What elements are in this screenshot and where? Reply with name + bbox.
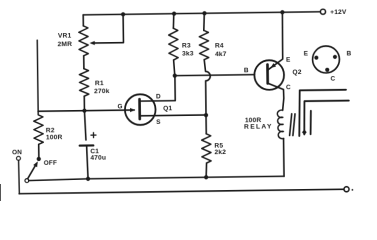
junction R3 drain base node bbox=[173, 74, 177, 78]
capacitor C1 plate bbox=[80, 144, 94, 146]
wire Q1 source to R5 node bbox=[140, 114, 206, 117]
switch common terminal bbox=[25, 179, 29, 183]
switch lever bbox=[27, 166, 35, 179]
wire ON terminal to output line bbox=[18, 160, 21, 193]
svg-text:RELAY: RELAY bbox=[244, 123, 273, 130]
svg-text:S: S bbox=[156, 119, 161, 126]
switch ON terminal bbox=[17, 156, 21, 160]
svg-text:+12V: +12V bbox=[330, 9, 347, 16]
Q1 gate arrow bbox=[130, 108, 135, 112]
wire VR1 to R1 bbox=[83, 56, 85, 69]
wire R5 bottom lead bbox=[205, 163, 208, 177]
resistor R1 bbox=[79, 69, 89, 97]
relay contact NO bbox=[309, 111, 312, 135]
label R2 100R bbox=[46, 127, 63, 141]
case label B bbox=[346, 50, 351, 57]
relay contact common bbox=[299, 90, 347, 136]
svg-text:R1: R1 bbox=[95, 80, 104, 87]
pin label G bbox=[117, 103, 122, 110]
wire VR1 wiper feed bbox=[91, 14, 123, 43]
label R3 3k3 bbox=[182, 42, 194, 57]
pin label C bbox=[286, 84, 291, 91]
junction top rail to VR1 wiper feed bbox=[121, 12, 125, 16]
wire top +12V supply rail bbox=[83, 12, 321, 15]
wire R4 top lead bbox=[203, 13, 206, 30]
junction rail to Q2 emitter bbox=[280, 10, 284, 14]
svg-text:G: G bbox=[117, 103, 122, 110]
wire source node to R5 bbox=[205, 115, 207, 134]
svg-text:C: C bbox=[286, 84, 291, 91]
transistor Q1 body circle bbox=[125, 94, 156, 125]
label 100R RELAY bbox=[244, 117, 273, 131]
wire gate node R2 to Q1 gate bbox=[38, 110, 134, 111]
terminal output bbox=[344, 187, 349, 192]
relay armature diamond bbox=[302, 129, 307, 135]
svg-text:E: E bbox=[304, 50, 309, 57]
Q2 collector line bbox=[268, 83, 284, 110]
svg-text:R4: R4 bbox=[215, 42, 224, 49]
svg-text:R3: R3 bbox=[182, 42, 191, 49]
svg-text:C: C bbox=[331, 76, 336, 83]
label C1 470u bbox=[90, 148, 106, 162]
svg-text:100R: 100R bbox=[46, 134, 63, 141]
label R5 2k2 bbox=[214, 142, 226, 156]
transistor Q2 body circle bbox=[254, 60, 284, 90]
VR1 wiper arrow bbox=[90, 41, 95, 45]
transistor case outline bbox=[312, 46, 339, 73]
wire relay coil to 0V rail bbox=[283, 138, 285, 176]
scan edge artifact left bbox=[0, 184, 2, 201]
resistor R4 bbox=[199, 30, 209, 59]
wire C1 top lead bbox=[84, 111, 85, 140]
svg-text:270k: 270k bbox=[94, 88, 110, 95]
label +12V bbox=[330, 9, 347, 16]
svg-text:2MR: 2MR bbox=[58, 41, 73, 48]
junction R1 C1 gate node bbox=[82, 109, 86, 113]
resistor R3 bbox=[169, 28, 179, 60]
pin label S bbox=[156, 119, 161, 126]
wire VR1 top lead bbox=[82, 15, 84, 26]
svg-text:ON: ON bbox=[12, 149, 22, 156]
pin label E bbox=[286, 57, 291, 64]
wire 0V rail bbox=[29, 176, 284, 180]
case pin E dot bbox=[314, 56, 318, 60]
potentiometer VR1 bbox=[79, 26, 89, 56]
case pin C dot bbox=[325, 68, 329, 72]
label R1 270k bbox=[94, 80, 110, 95]
Q2 base bar bbox=[266, 64, 269, 83]
wire C1 bottom lead bbox=[87, 146, 88, 179]
relay coil RLA bbox=[277, 110, 283, 139]
output terminal mark bbox=[352, 189, 354, 191]
svg-text:E: E bbox=[286, 57, 291, 64]
switch lever arrow bbox=[33, 161, 38, 167]
wire R4 lead with hop over base line bbox=[204, 60, 211, 116]
switch OFF contact dot bbox=[37, 157, 41, 161]
Q1 gate bar bbox=[138, 99, 141, 119]
svg-text:VR1: VR1 bbox=[58, 32, 72, 39]
relay core lines bbox=[289, 114, 295, 136]
label Q2 bbox=[292, 69, 301, 76]
case pin B dot bbox=[333, 55, 337, 59]
svg-text:B: B bbox=[244, 67, 249, 74]
svg-text:3k3: 3k3 bbox=[182, 50, 194, 57]
case label C bbox=[331, 76, 336, 83]
pin label D bbox=[156, 94, 161, 101]
svg-text:470u: 470u bbox=[90, 154, 106, 161]
Q2 emitter arrow bbox=[270, 63, 276, 68]
case label E bbox=[304, 50, 309, 57]
svg-text:Q2: Q2 bbox=[292, 69, 301, 76]
svg-text:D: D bbox=[156, 94, 161, 101]
wire R2 bottom lead bbox=[38, 144, 40, 157]
junction Q1 source R5 bbox=[204, 113, 208, 117]
wire Q2 emitter to rail bbox=[281, 12, 284, 59]
junction rail to R4 bbox=[202, 11, 206, 15]
pin label B bbox=[244, 67, 249, 74]
junction C1 to 0V rail bbox=[86, 177, 90, 181]
label OFF bbox=[44, 160, 57, 167]
wire R3 bottom lead bbox=[174, 60, 175, 76]
wire base node to Q2 base bbox=[175, 75, 255, 76]
wire output line bottom bbox=[19, 189, 344, 193]
svg-text:Q1: Q1 bbox=[163, 105, 172, 112]
label Q1 bbox=[163, 105, 172, 112]
wire R3 top lead bbox=[172, 14, 175, 29]
svg-text:R2: R2 bbox=[46, 127, 55, 134]
svg-text:2k2: 2k2 bbox=[214, 149, 226, 156]
resistor R2 bbox=[33, 40, 44, 144]
junction R5 to 0V rail bbox=[204, 175, 208, 179]
resistor R5 bbox=[202, 134, 212, 163]
label R4 4k7 bbox=[215, 42, 227, 58]
C1 polarity plus sign bbox=[91, 133, 96, 138]
junction rail to R3 bbox=[172, 12, 176, 16]
wire R1 bottom lead bbox=[83, 96, 85, 110]
svg-text:4k7: 4k7 bbox=[215, 51, 227, 58]
terminal +12V supply bbox=[320, 9, 325, 14]
label VR1 2MR bbox=[57, 32, 72, 48]
svg-text:B: B bbox=[346, 50, 351, 57]
Q2 emitter line bbox=[267, 59, 282, 70]
svg-text:OFF: OFF bbox=[44, 160, 57, 167]
relay contact armature bbox=[304, 101, 349, 135]
wire Q1 drain to R3 node bbox=[139, 76, 175, 101]
label ON bbox=[12, 149, 22, 156]
